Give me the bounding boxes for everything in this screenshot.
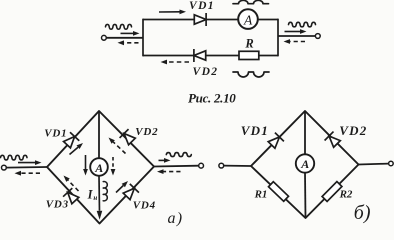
svg-text:R1: R1 xyxy=(254,189,268,201)
svg-text:н: н xyxy=(93,194,97,202)
svg-text:R: R xyxy=(244,37,253,51)
svg-text:VD1: VD1 xyxy=(44,127,67,139)
svg-text:VD2: VD2 xyxy=(135,126,158,138)
svg-text:VD3: VD3 xyxy=(46,199,69,211)
svg-text:A: A xyxy=(243,12,253,27)
svg-text:VD1: VD1 xyxy=(189,0,215,12)
svg-text:VD1: VD1 xyxy=(241,123,269,138)
svg-text:VD2: VD2 xyxy=(193,66,219,78)
svg-text:VD4: VD4 xyxy=(133,200,156,212)
svg-text:R2: R2 xyxy=(339,189,353,201)
svg-text:A: A xyxy=(94,161,103,175)
svg-text:VD2: VD2 xyxy=(339,123,367,138)
svg-text:A: A xyxy=(300,157,309,171)
svg-text:Рис. 2.10: Рис. 2.10 xyxy=(188,90,236,105)
svg-text:б): б) xyxy=(354,202,371,224)
svg-text:а): а) xyxy=(168,210,184,227)
